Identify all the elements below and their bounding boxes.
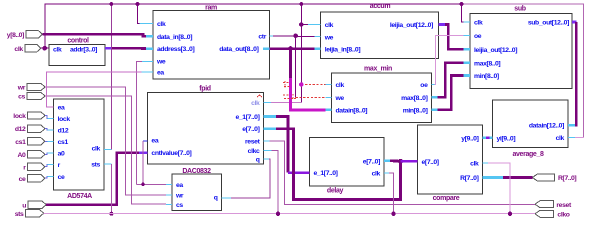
input pin lock bbox=[28, 112, 46, 119]
wire bus e_1 into delay (bright) bbox=[288, 171, 310, 174]
svg-text:clkc: clkc bbox=[248, 148, 260, 155]
pin stub reset (fpid) bbox=[264, 140, 270, 142]
pin name e[7..0] (delay) bbox=[363, 158, 380, 165]
svg-text:clk: clk bbox=[372, 171, 381, 178]
svg-text:compare: compare bbox=[433, 195, 460, 202]
svg-text:clk: clk bbox=[556, 135, 565, 142]
wire clk top rail left bbox=[45, 4, 462, 48]
input pin cs bbox=[27, 92, 45, 99]
junction clk/control bbox=[42, 46, 47, 51]
pin label clko bbox=[557, 211, 569, 218]
pin stub ctr (ram) bbox=[270, 35, 274, 37]
pin name we (accum) bbox=[324, 34, 334, 41]
svg-text:we: we bbox=[156, 59, 166, 66]
pin stub clk (fpid) bbox=[264, 101, 271, 103]
pin stub e (fpid) bbox=[264, 127, 276, 130]
pin label clk bbox=[14, 46, 23, 53]
pin name ea (DAC0832) bbox=[176, 182, 183, 189]
pin stub yi (average_8) bbox=[489, 137, 493, 140]
svg-text:leijia_in[8..0]: leijia_in[8..0] bbox=[325, 46, 361, 53]
svg-text:clk: clk bbox=[53, 46, 62, 53]
input pin sts bbox=[26, 210, 44, 217]
pin stub clk (accum) bbox=[308, 24, 321, 26]
svg-text:cs1: cs1 bbox=[58, 139, 69, 146]
svg-text:max[8..0]: max[8..0] bbox=[401, 95, 427, 102]
svg-text:data_in[8..0]: data_in[8..0] bbox=[157, 34, 192, 41]
pin stub clk (max_min) bbox=[326, 84, 332, 86]
pin stub clk (ram) bbox=[140, 23, 154, 25]
wire bus y[8..0] to ram data_in bbox=[43, 34, 147, 36]
input pin clk bbox=[25, 45, 41, 52]
pin name clk (accum) bbox=[325, 22, 334, 29]
wire bus compare R to pin bbox=[503, 176, 532, 179]
pin name addr[3..0] (control) bbox=[70, 46, 97, 53]
label delay bbox=[327, 187, 344, 194]
wire ctr down to max_min we bbox=[295, 36, 297, 98]
pin label reset bbox=[556, 202, 572, 209]
wire clkc fpid down bbox=[272, 150, 279, 213]
pin stub address[3..0] (ram) bbox=[146, 47, 153, 50]
wire oe max_min to sub bbox=[435, 36, 464, 85]
pin name clk (AD574A) bbox=[92, 146, 101, 153]
label compare bbox=[433, 195, 460, 202]
pin label y[8..0] bbox=[7, 32, 24, 39]
svg-text:y[8..0]: y[8..0] bbox=[7, 32, 24, 39]
svg-text:d12: d12 bbox=[58, 128, 69, 135]
label average_8 bbox=[512, 151, 544, 158]
svg-text:control: control bbox=[67, 38, 89, 45]
wire bus sub_out to average_8 datain bbox=[575, 22, 576, 125]
pin name ea (AD574A) bbox=[58, 105, 65, 112]
svg-text:sub_out[12..0]: sub_out[12..0] bbox=[528, 20, 569, 27]
wire clk net: pin to control and top rail riser bbox=[41, 47, 49, 49]
pin stub addr[3..0] (control, right) bbox=[105, 47, 112, 50]
pin stub ea (DAC0832) bbox=[166, 184, 172, 186]
pin stub datain (average_8) bbox=[568, 124, 575, 127]
pin stub sts (AD574A) bbox=[104, 163, 111, 165]
pin stub clk (AD574A) bbox=[104, 149, 111, 151]
pin stub cs (DAC0832) bbox=[166, 203, 172, 205]
pin stub oe (max_min) bbox=[432, 84, 435, 86]
svg-text:e_1[7..0]: e_1[7..0] bbox=[314, 170, 338, 177]
junction clk rail x=461 bbox=[460, 2, 464, 6]
svg-text:ce: ce bbox=[58, 174, 65, 181]
pin name oe (sub) bbox=[474, 33, 482, 40]
wire bus delay e out bbox=[390, 160, 401, 163]
svg-text:min[8..0]: min[8..0] bbox=[403, 107, 428, 114]
svg-text:reset: reset bbox=[245, 138, 261, 145]
wire clk to max_min clk (selected, red dashed) bbox=[301, 84, 325, 86]
wire ram we down to DAC ea rail bbox=[137, 61, 142, 184]
pin name datain[12..0] (average_8) bbox=[529, 123, 564, 130]
pin name e[7..0] (compare) bbox=[422, 159, 439, 166]
svg-text:A0: A0 bbox=[18, 152, 27, 159]
wire pin r to AD574A bbox=[45, 165, 48, 167]
svg-text:R[7..0]: R[7..0] bbox=[460, 175, 478, 182]
pin label cs1 bbox=[15, 139, 26, 146]
input pin ce bbox=[28, 175, 46, 182]
IC block compare U10 (outline) bbox=[418, 125, 483, 194]
pin label cs bbox=[18, 94, 25, 101]
pin name R[7..0] (compare) bbox=[460, 175, 478, 182]
wire bus compare y to average yi bbox=[486, 137, 490, 140]
svg-text:datain[8..0]: datain[8..0] bbox=[336, 107, 368, 114]
pin label r bbox=[23, 164, 26, 171]
pin name reset (fpid) bbox=[245, 138, 261, 145]
wire pin A0 to AD574A bbox=[45, 153, 48, 154]
label sub bbox=[514, 6, 525, 13]
svg-text:ce: ce bbox=[19, 176, 26, 183]
pin stub leijia_in[8..0] (accum) bbox=[314, 47, 320, 50]
wire pin d12 to AD574A bbox=[45, 129, 48, 130]
pin name data_in[8..0] (ram) bbox=[157, 34, 192, 41]
pin name sts (AD574A) bbox=[91, 162, 100, 169]
pin stub a0 (AD574A) bbox=[48, 152, 54, 154]
pin name cs1 (AD574A) bbox=[58, 139, 69, 146]
junction delay clk bbox=[391, 212, 395, 216]
pin stub data_out[8..0] (ram) bbox=[263, 47, 270, 50]
svg-text:e[7..0]: e[7..0] bbox=[242, 126, 259, 133]
svg-text:q: q bbox=[214, 195, 218, 202]
junction clkc/clko bbox=[276, 212, 280, 216]
junction clk accum bbox=[299, 22, 303, 26]
junction data_out bus bbox=[288, 46, 293, 51]
wire delay clk to clko rail bbox=[389, 173, 394, 214]
wire pin lock to AD574A bbox=[45, 116, 48, 119]
pin stub R (compare) bbox=[483, 176, 504, 179]
pin stub cntlvalue (fpid) bbox=[139, 151, 147, 154]
pin stub e (compare) bbox=[415, 160, 418, 163]
pin stub leijia_out (sub) bbox=[464, 48, 471, 51]
pin name leijia_in[8..0] (accum) bbox=[325, 46, 361, 53]
IC block delay U9 (outline) bbox=[310, 138, 385, 186]
svg-text:lock: lock bbox=[58, 116, 71, 123]
svg-text:clk: clk bbox=[251, 100, 260, 107]
pin label u bbox=[22, 202, 26, 209]
pin stub ea (ram) bbox=[142, 71, 154, 73]
svg-text:ctr: ctr bbox=[258, 33, 266, 40]
svg-text:AD574A: AD574A bbox=[67, 193, 92, 200]
svg-text:address[3..0]: address[3..0] bbox=[157, 46, 194, 53]
pin label ce bbox=[19, 176, 26, 183]
pin name data_out[8..0] (ram) bbox=[219, 46, 258, 53]
label max_min bbox=[364, 66, 392, 73]
IC block max_min U5 (outline) bbox=[332, 73, 432, 123]
svg-text:data_out[8..0]: data_out[8..0] bbox=[219, 46, 258, 53]
pin stub q (fpid) bbox=[264, 158, 270, 160]
pin name wr (DAC0832) bbox=[175, 193, 184, 200]
pin name ea (ram) bbox=[157, 70, 164, 77]
pin name e_1[7..0] (fpid) bbox=[235, 114, 259, 121]
junction ctr bbox=[293, 34, 298, 39]
wire clk branch down col bbox=[300, 4, 302, 103]
pin name min[8..0] (max_min) bbox=[403, 107, 428, 114]
pin name address[3..0] (ram) bbox=[157, 46, 194, 53]
pin name lock (AD574A) bbox=[58, 116, 71, 123]
pin stub min (max_min) bbox=[432, 109, 438, 112]
wire bus data_out to max_min datain (bright) bbox=[291, 78, 326, 110]
svg-text:e_1[7..0]: e_1[7..0] bbox=[235, 114, 259, 121]
svg-text:lock: lock bbox=[13, 113, 26, 120]
svg-text:a0: a0 bbox=[58, 151, 65, 158]
wire bus e fpid down-around bbox=[276, 129, 401, 200]
pin label sts bbox=[15, 211, 24, 218]
wire ea fpid down bbox=[142, 141, 144, 185]
wire bottom clko rail bbox=[44, 213, 535, 215]
svg-text:we: we bbox=[324, 34, 334, 41]
pin label R[7..0] bbox=[558, 175, 576, 182]
junction clk rail x=137 bbox=[136, 2, 140, 6]
pin name clk (max_min) bbox=[336, 82, 345, 89]
wire bus min max_min to sub bbox=[438, 76, 464, 110]
junction e bus bbox=[398, 159, 403, 164]
svg-text:leijia_out[12..0]: leijia_out[12..0] bbox=[390, 22, 433, 29]
svg-text:sts: sts bbox=[91, 162, 100, 169]
pin name q (fpid) bbox=[256, 156, 260, 163]
pin stub lock (AD574A) bbox=[48, 118, 54, 120]
label control bbox=[67, 38, 89, 45]
pin name a0 (AD574A) bbox=[58, 151, 65, 158]
pin stub r (AD574A) bbox=[48, 164, 54, 166]
wire clk to accum clk bbox=[301, 24, 308, 26]
pin stub d12 (AD574A) bbox=[48, 129, 54, 131]
svg-text:clk: clk bbox=[474, 20, 483, 27]
input pin d12 bbox=[28, 125, 46, 132]
pin name ea (fpid) bbox=[151, 138, 158, 145]
pin stub we (max_min) bbox=[326, 96, 332, 98]
label accum bbox=[370, 3, 391, 10]
output pin R[7..0] bbox=[532, 174, 554, 181]
wire ea to ram ea and AD574A ea bbox=[47, 72, 142, 107]
wire reset fpid to pin bbox=[270, 141, 536, 205]
output pin reset bbox=[535, 201, 553, 208]
pin name max[8..0] (sub) bbox=[474, 60, 500, 67]
pin name max[8..0] (max_min) bbox=[401, 95, 427, 102]
svg-text:u: u bbox=[22, 202, 26, 209]
wire compare clk to clko rail bbox=[488, 163, 510, 214]
svg-text:sub: sub bbox=[514, 6, 525, 13]
pin stub data_in[8..0] (ram) bbox=[146, 35, 153, 38]
wire clk branch to ram clk bbox=[138, 4, 140, 24]
pin stub we (accum) bbox=[314, 36, 320, 38]
svg-text:fpid: fpid bbox=[199, 85, 211, 92]
wire ctr ram to accum we bbox=[273, 35, 314, 38]
label AD574A bbox=[67, 193, 92, 200]
IC block ram U2 (outline) bbox=[153, 11, 270, 80]
pin label lock bbox=[13, 113, 26, 120]
wire bus data_out down bbox=[289, 49, 292, 79]
junction clk rail x=301 bbox=[299, 2, 303, 6]
pin stub datain (max_min) bbox=[326, 109, 332, 112]
svg-text:ram: ram bbox=[205, 5, 217, 12]
wire clk into average_8 clk bbox=[575, 136, 584, 138]
svg-text:cs1: cs1 bbox=[15, 139, 26, 146]
pin stub e_1 (fpid) bbox=[264, 115, 276, 118]
pin name leijia_out[12..0] (sub) bbox=[474, 47, 517, 54]
svg-text:q: q bbox=[256, 156, 260, 163]
pin name yi[9..0] (average_8) bbox=[497, 135, 516, 142]
wire sts AD574A down bbox=[110, 164, 112, 214]
pin name min[8..0] (sub) bbox=[474, 73, 499, 80]
IC block control U1 (outline) bbox=[49, 45, 105, 66]
svg-text:DAC0832: DAC0832 bbox=[182, 168, 211, 175]
pin name ce (AD574A) bbox=[58, 174, 65, 181]
svg-text:ea: ea bbox=[58, 105, 65, 112]
svg-text:e[7..0]: e[7..0] bbox=[422, 159, 439, 166]
pin stub max (sub) bbox=[464, 61, 471, 64]
pin stub clk (average_8) bbox=[568, 137, 575, 139]
pin stub ea (AD574A) bbox=[48, 106, 54, 108]
pin stub e (delay) bbox=[384, 160, 390, 163]
pin name e_1[7..0] (delay) bbox=[314, 170, 338, 177]
input pin A0 bbox=[28, 151, 46, 158]
wire bus addr[3..0] control to ram address bbox=[112, 47, 146, 50]
pin name clk (sub) bbox=[474, 20, 483, 27]
input pin cs1 bbox=[28, 138, 46, 145]
svg-text:cs: cs bbox=[176, 202, 183, 209]
pin stub q (DAC0832) bbox=[222, 197, 231, 199]
pin stub min (sub) bbox=[464, 74, 471, 77]
IC block DAC0832 U8 (outline) bbox=[172, 174, 222, 211]
svg-text:cntlvalue[7..0]: cntlvalue[7..0] bbox=[151, 150, 191, 157]
pin stub clkc (fpid) bbox=[264, 149, 272, 151]
svg-text:yi[9..0]: yi[9..0] bbox=[497, 135, 516, 142]
pin name r (AD574A) bbox=[58, 162, 61, 169]
IC block sub U4 (outline) bbox=[470, 14, 572, 89]
label DAC0832 bbox=[182, 168, 211, 175]
svg-text:clk: clk bbox=[336, 82, 345, 89]
junction compare clk bbox=[508, 212, 512, 216]
junction clk max_min bbox=[299, 82, 304, 87]
svg-text:clk: clk bbox=[92, 146, 101, 153]
junction ea bbox=[141, 183, 145, 187]
wire cs pin to DAC cs bbox=[45, 96, 166, 204]
pin stub clk (sub) bbox=[464, 21, 471, 23]
pin label A0 bbox=[18, 152, 27, 159]
junction sts bbox=[109, 212, 113, 216]
pin stub ea (fpid) bbox=[143, 140, 147, 142]
input pin wr bbox=[27, 83, 45, 90]
svg-text:clk: clk bbox=[325, 22, 334, 29]
pin stub clk (delay) bbox=[384, 172, 389, 174]
svg-text:y[9..0]: y[9..0] bbox=[461, 136, 478, 143]
svg-text:max[8..0]: max[8..0] bbox=[474, 60, 500, 67]
svg-text:datain[12..0]: datain[12..0] bbox=[529, 123, 564, 130]
pin name leijia_out[12..0] (accum) bbox=[390, 22, 433, 29]
pin stub y (compare) bbox=[483, 137, 487, 140]
wire clk to fpid clk bbox=[271, 102, 302, 104]
wire pin ce to AD574A bbox=[45, 176, 48, 178]
pin stub e_1 (delay) bbox=[306, 171, 310, 174]
pin name cntlvalue[7..0] (fpid) bbox=[151, 150, 191, 157]
pin name we (ram) bbox=[156, 59, 166, 66]
wire bus accum leijia_out to sub bbox=[445, 25, 464, 50]
pin label d12 bbox=[15, 126, 26, 133]
input pin r bbox=[28, 163, 46, 170]
pin name q (DAC0832) bbox=[214, 195, 218, 202]
pin name ctr (ram) bbox=[258, 33, 266, 40]
input pin y[8..0] bbox=[26, 31, 43, 38]
wire clk top rail right bbox=[462, 4, 584, 137]
svg-text:cs: cs bbox=[18, 94, 25, 101]
svg-text:reset: reset bbox=[556, 202, 572, 209]
svg-text:R[7..0]: R[7..0] bbox=[558, 175, 576, 182]
pin name datain[8..0] (max_min) bbox=[336, 107, 368, 114]
svg-text:wr: wr bbox=[17, 85, 26, 92]
pin name oe (max_min) bbox=[420, 82, 428, 89]
svg-text:clko: clko bbox=[557, 211, 569, 218]
pin name clk (ram) bbox=[157, 21, 166, 28]
IC block accum U3 (outline) bbox=[321, 12, 439, 59]
svg-text:d12: d12 bbox=[15, 126, 26, 133]
output pin clko bbox=[535, 210, 553, 217]
input pin u bbox=[28, 201, 46, 208]
pin stub we (ram) bbox=[142, 60, 153, 62]
pin name clk (average_8) bbox=[556, 135, 565, 142]
label fpid bbox=[199, 85, 211, 92]
label ram bbox=[205, 5, 217, 12]
junction clk rail x=111 bbox=[109, 2, 113, 6]
svg-text:wr: wr bbox=[175, 193, 184, 200]
pin label wr bbox=[17, 85, 26, 92]
svg-text:leijia_out[12..0]: leijia_out[12..0] bbox=[474, 47, 517, 54]
svg-text:clk: clk bbox=[157, 21, 166, 28]
pin stub leijia_out[12..0] (accum) bbox=[439, 23, 445, 26]
pin stub oe (sub) bbox=[464, 35, 471, 37]
pin stub ce (AD574A) bbox=[48, 175, 54, 177]
pin name cs (DAC0832) bbox=[176, 202, 183, 209]
pin stub cs1 (AD574A) bbox=[48, 141, 54, 143]
svg-text:average_8: average_8 bbox=[512, 151, 544, 158]
svg-text:delay: delay bbox=[327, 187, 344, 194]
pin name clk (compare) bbox=[470, 161, 479, 168]
pin name y[9..0] (compare) bbox=[461, 136, 478, 143]
pin stub max (max_min) bbox=[432, 96, 438, 99]
svg-text:we: we bbox=[335, 95, 345, 102]
svg-text:max_min: max_min bbox=[364, 66, 392, 73]
pin stub clk (control, left) bbox=[46, 47, 49, 49]
wire clk branch to sub clk bbox=[462, 4, 464, 22]
error marks red cluster bbox=[257, 81, 296, 100]
pin name clk (delay) bbox=[372, 171, 381, 178]
wire bus ram data_out to accum leijia_in bbox=[270, 47, 315, 50]
svg-text:clk: clk bbox=[14, 46, 23, 53]
svg-text:ea: ea bbox=[151, 138, 158, 145]
wire bus u to fpid cntlvalue bbox=[46, 153, 139, 205]
svg-text:ea: ea bbox=[157, 70, 164, 77]
wire wr pin to DAC wr bbox=[45, 87, 166, 195]
wire bus max max_min to sub bbox=[438, 63, 464, 98]
IC block fpid U6 (outline) bbox=[147, 92, 263, 164]
wire pin cs1 to AD574A bbox=[45, 140, 48, 142]
IC block average_8 U11 (outline) bbox=[493, 100, 569, 148]
svg-text:clk: clk bbox=[470, 161, 479, 168]
pin name clk (fpid) bbox=[251, 100, 260, 107]
pin stub wr (DAC0832) bbox=[166, 194, 172, 196]
wire DAC ea feed bbox=[137, 183, 166, 185]
wire clk branch to AD574A clk bbox=[110, 4, 112, 150]
wire bus e_1 fpid to delay bbox=[276, 117, 288, 173]
svg-text:oe: oe bbox=[420, 82, 428, 89]
pin name clk (control) bbox=[53, 46, 62, 53]
svg-text:ea: ea bbox=[176, 182, 183, 189]
svg-text:sts: sts bbox=[15, 211, 24, 218]
pin name clkc (fpid) bbox=[248, 148, 260, 155]
svg-text:addr[3..0]: addr[3..0] bbox=[70, 46, 97, 53]
wire q fpid to DAC q bbox=[231, 159, 270, 198]
svg-text:e[7..0]: e[7..0] bbox=[363, 158, 380, 165]
wire ctr to max_min we (selected, red dashed) bbox=[296, 96, 326, 98]
